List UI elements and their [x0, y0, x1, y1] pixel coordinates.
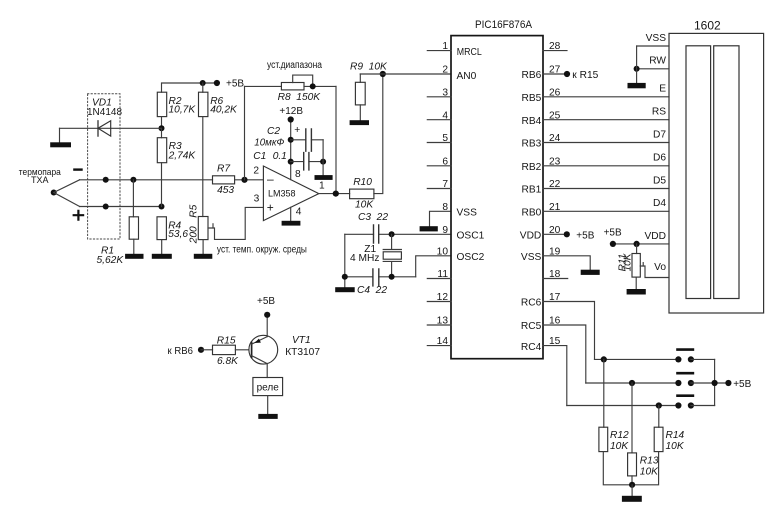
- wire collector to relay: [266, 364, 268, 378]
- button SB1: [595, 358, 679, 360]
- svg-text:4: 4: [442, 110, 448, 121]
- svg-text:+5B: +5B: [576, 231, 594, 242]
- LCD module 1602 body: [669, 33, 764, 313]
- svg-text:Vo: Vo: [654, 262, 666, 273]
- pin 4 stub: [427, 119, 451, 121]
- pin 15 RC4 wire to button 3: [543, 346, 567, 406]
- svg-text:VT1: VT1: [292, 335, 311, 346]
- wire op-amp output: [319, 193, 350, 195]
- ground for R9: [350, 120, 369, 125]
- button SB2: [586, 382, 679, 384]
- svg-text:RB5: RB5: [521, 93, 541, 104]
- pin 16 RC5 wire to button 2: [543, 325, 586, 383]
- svg-text:RB2: RB2: [521, 162, 541, 173]
- svg-text:C2: C2: [267, 126, 280, 137]
- resistor R2: [157, 92, 166, 116]
- svg-text:24: 24: [549, 133, 561, 144]
- wire R8 right down to output node: [335, 86, 337, 193]
- resistor R9: [359, 74, 361, 82]
- svg-text:10: 10: [437, 246, 449, 257]
- node к RB6 terminal: [198, 347, 204, 353]
- svg-text:OSC2: OSC2: [457, 252, 485, 263]
- wire minus row to R7: [80, 179, 213, 181]
- svg-text:RS: RS: [652, 107, 666, 118]
- svg-text:ТХА: ТХА: [31, 175, 49, 185]
- svg-text:+5B: +5B: [733, 379, 751, 390]
- pin 6 stub: [427, 165, 451, 167]
- wire pin 8 / +12B rail: [290, 120, 292, 180]
- svg-text:C4 22: C4 22: [357, 285, 387, 296]
- svg-text:MRCL: MRCL: [457, 47, 482, 58]
- LCD pin VSS wire: [637, 45, 669, 47]
- svg-text:+5B: +5B: [604, 227, 622, 238]
- button SB3: [567, 405, 679, 407]
- LCD screen column 1: [686, 46, 711, 299]
- pin 11 stub: [427, 278, 451, 280]
- node OSC1/crystal junction: [389, 231, 395, 237]
- node left oscillator junction: [342, 274, 348, 280]
- svg-text:RC5: RC5: [521, 321, 542, 332]
- svg-text:6.8K: 6.8K: [217, 356, 239, 367]
- svg-text:КТ3107: КТ3107: [285, 347, 320, 358]
- ground for oscillator: [335, 287, 355, 292]
- pin 3 stub: [427, 96, 451, 98]
- svg-text:реле: реле: [257, 382, 280, 393]
- svg-text:15: 15: [549, 336, 561, 347]
- potentiometer R11 (contrast): [636, 244, 638, 254]
- svg-text:22: 22: [549, 179, 561, 190]
- svg-text:OSC1: OSC1: [457, 231, 485, 242]
- pin 24 RB3 wire to LCD D7: [543, 142, 669, 144]
- resistor R15: [201, 349, 213, 351]
- svg-text:5: 5: [442, 133, 448, 144]
- crystal Z1 4MHz: [383, 234, 401, 249]
- svg-text:27: 27: [549, 65, 561, 76]
- IC U2 PIC16F876A body: [451, 36, 543, 359]
- svg-text:10K: 10K: [640, 467, 659, 478]
- svg-text:26: 26: [549, 87, 561, 98]
- svg-text:53,6: 53,6: [168, 229, 188, 240]
- ground for R4: [152, 254, 172, 259]
- svg-text:8: 8: [442, 202, 448, 213]
- svg-text:R10: R10: [353, 177, 372, 188]
- pin 20 VDD wire to +5B: [543, 233, 567, 235]
- svg-text:R12: R12: [610, 430, 629, 441]
- svg-text:7: 7: [442, 179, 448, 190]
- svg-text:R7: R7: [217, 163, 230, 174]
- svg-text:R14: R14: [666, 430, 685, 441]
- svg-text:0.1: 0.1: [273, 151, 287, 162]
- ground for R11: [627, 289, 646, 295]
- wire left leg of oscillator: [344, 234, 346, 287]
- svg-text:10K: 10K: [355, 200, 374, 211]
- pin 17 RC6 wire to button 1: [543, 302, 595, 360]
- svg-text:40,2K: 40,2K: [210, 105, 238, 116]
- svg-text:E: E: [659, 84, 666, 95]
- pin 5 stub: [427, 142, 451, 144]
- LCD pin RW wire: [637, 68, 669, 70]
- ground for relay: [258, 414, 277, 419]
- pin 7 stub: [427, 188, 451, 190]
- svg-text:1: 1: [319, 180, 325, 191]
- resistor R5 (trimmer): [198, 217, 208, 240]
- svg-text:к RB6: к RB6: [168, 346, 194, 357]
- pin 13 stub: [427, 324, 451, 326]
- ground for op-amp pin 4: [282, 221, 301, 226]
- wire thermocouple legs: [54, 180, 80, 207]
- resistor R14: [658, 406, 660, 428]
- potentiometer R8 (range adjust): [245, 85, 282, 87]
- pin 23 RB2 wire to LCD D6: [543, 165, 669, 167]
- svg-text:RB6: RB6: [521, 70, 541, 81]
- node AN0 junction: [380, 71, 386, 77]
- node +5B terminal VT1: [264, 312, 270, 318]
- wire R10 to AN0 line: [374, 74, 383, 194]
- wire button bus to +5B: [714, 359, 716, 405]
- ground for R5: [194, 254, 213, 259]
- node +5B rail top-left: [162, 83, 217, 92]
- wire plus row: [80, 206, 162, 208]
- ground for VD1: [59, 128, 61, 142]
- svg-text:19: 19: [549, 246, 561, 257]
- capacitor C2 (electrolytic): [288, 137, 294, 143]
- resistor R12: [603, 359, 605, 427]
- ground for LCD VSS/RW: [628, 83, 646, 88]
- svg-text:12: 12: [437, 292, 449, 303]
- svg-text:уст.диапазона: уст.диапазона: [267, 60, 322, 71]
- svg-text:453: 453: [217, 185, 234, 196]
- ground for pin 8: [420, 226, 438, 231]
- capacitor C4: [345, 276, 416, 278]
- svg-text:PIC16F876A: PIC16F876A: [475, 19, 533, 31]
- svg-text:10,7K: 10,7K: [169, 105, 197, 116]
- svg-text:R13: R13: [640, 456, 659, 467]
- resistor R3: [161, 128, 163, 137]
- svg-text:2: 2: [442, 65, 448, 76]
- wire AN0 (pin 2): [360, 73, 451, 75]
- pin 18 stub: [543, 278, 568, 280]
- svg-text:17: 17: [549, 292, 561, 303]
- svg-text:2,74K: 2,74K: [168, 150, 197, 161]
- pin 28 stub: [543, 50, 567, 52]
- svg-text:D4: D4: [653, 198, 666, 209]
- svg-text:10K: 10K: [610, 441, 629, 452]
- pin 26 RB5 wire to LCD E: [543, 96, 669, 98]
- pin 12 stub: [427, 301, 451, 303]
- svg-text:28: 28: [549, 41, 561, 52]
- svg-text:VSS: VSS: [646, 33, 667, 44]
- svg-text:–: –: [267, 172, 274, 186]
- svg-text:VDD: VDD: [520, 231, 542, 242]
- svg-text:RB4: RB4: [521, 116, 541, 127]
- wire R7 to op-amp pin 2: [235, 179, 264, 181]
- node R3/R4 tap on plus wire: [159, 204, 165, 210]
- wire R5 wiper to op-amp pin 3: [208, 207, 263, 239]
- node on minus wire (junction in box): [103, 177, 109, 183]
- svg-text:8: 8: [295, 169, 301, 180]
- pin 1 stub MRCL: [427, 50, 451, 52]
- svg-text:+12В: +12В: [279, 106, 303, 117]
- svg-text:20: 20: [549, 225, 561, 236]
- svg-text:VSS: VSS: [521, 252, 542, 263]
- svg-text:10K: 10K: [666, 441, 685, 452]
- svg-text:9: 9: [442, 225, 448, 236]
- svg-text:10мкФ: 10мкФ: [254, 138, 284, 149]
- ground for C1/C2: [315, 175, 333, 180]
- pin 14 stub: [427, 345, 451, 347]
- svg-text:25: 25: [549, 110, 561, 121]
- svg-text:C1: C1: [253, 151, 266, 162]
- svg-text:к R15: к R15: [572, 70, 598, 81]
- svg-text:10K: 10K: [623, 252, 634, 271]
- node +5B terminal buttons: [725, 380, 731, 386]
- node on plus wire (junction in box): [103, 204, 109, 210]
- svg-text:3: 3: [254, 193, 260, 204]
- svg-text:RB3: RB3: [521, 139, 541, 150]
- svg-text:D5: D5: [653, 175, 666, 186]
- svg-text:RW: RW: [649, 56, 666, 67]
- svg-text:AN0: AN0: [457, 71, 477, 82]
- wire relay to ground: [267, 396, 269, 414]
- wire OSC2 (pin 10): [416, 256, 451, 277]
- relay box: [253, 378, 283, 396]
- svg-text:уст. темп. окруж. среды: уст. темп. окруж. среды: [217, 244, 307, 255]
- svg-text:4 MHz: 4 MHz: [350, 253, 379, 264]
- svg-text:5,62K: 5,62K: [97, 255, 125, 266]
- svg-text:+5В: +5В: [257, 296, 275, 307]
- svg-text:R8 150K: R8 150K: [278, 92, 322, 103]
- minus terminal mark: [74, 168, 81, 170]
- capacitor C1: [288, 159, 294, 165]
- node +12B terminal: [288, 116, 294, 122]
- svg-text:18: 18: [549, 269, 561, 280]
- svg-text:200: 200: [188, 226, 199, 244]
- svg-text:R9 10K: R9 10K: [350, 61, 388, 72]
- node R2/R3/VD1 junction: [159, 125, 165, 131]
- node crystal/C4 junction: [389, 274, 395, 280]
- svg-text:VDD: VDD: [644, 231, 666, 242]
- op-amp U1 LM358: [263, 166, 318, 221]
- svg-text:RB0: RB0: [521, 208, 541, 219]
- node feedback/pin2 junction: [241, 177, 247, 183]
- pin 27 RB6 wire to R15: [543, 73, 567, 75]
- svg-text:LM358: LM358: [268, 189, 296, 199]
- wire R2 bottom to node: [161, 117, 163, 129]
- LCD screen column 2: [714, 46, 739, 299]
- wire VSS pin 8 to ground: [430, 211, 452, 226]
- svg-text:+: +: [294, 125, 300, 136]
- resistor R13: [631, 383, 633, 453]
- pin 19 VSS wire to ground: [543, 256, 590, 270]
- svg-text:R5: R5: [188, 204, 199, 217]
- resistor R4: [157, 217, 166, 240]
- node R1 tap on minus wire: [130, 177, 136, 183]
- svg-text:VSS: VSS: [457, 208, 478, 219]
- ground for buttons resistors: [622, 496, 642, 502]
- LCD pin VDD wire: [613, 243, 669, 245]
- wire R11 wiper to LCD Vo: [640, 266, 669, 278]
- node thermocouple apex: [51, 190, 57, 196]
- pin 22 RB1 wire to LCD D5: [543, 188, 669, 190]
- svg-text:11: 11: [437, 269, 448, 280]
- svg-text:1: 1: [442, 41, 448, 52]
- resistor R1: [132, 180, 134, 217]
- svg-text:2: 2: [253, 166, 259, 177]
- svg-text:R15: R15: [217, 335, 236, 346]
- svg-text:6: 6: [442, 156, 448, 167]
- resistor R6: [202, 83, 204, 92]
- pin 21 RB0 wire to LCD D4: [543, 210, 669, 212]
- svg-text:RC4: RC4: [521, 342, 542, 353]
- svg-text:D6: D6: [653, 153, 666, 164]
- node R12/R13/R14 common: [629, 482, 635, 488]
- transistor Q1 VT1 KT3107: [249, 335, 278, 364]
- svg-text:14: 14: [437, 336, 449, 347]
- svg-text:C3 22: C3 22: [358, 212, 388, 223]
- node C1/C2 right junction: [320, 159, 326, 165]
- svg-text:13: 13: [437, 316, 449, 327]
- svg-text:D7: D7: [653, 129, 666, 140]
- ground for R1: [125, 254, 143, 259]
- wire VSS/RW to ground: [636, 46, 638, 83]
- svg-text:1N4148: 1N4148: [87, 107, 122, 118]
- svg-text:23: 23: [549, 156, 561, 167]
- ground for pin 19: [581, 270, 600, 275]
- svg-text:1602: 1602: [694, 19, 721, 33]
- dotted box around VD1 and thermocouple junction: [88, 94, 120, 239]
- svg-text:+5B: +5B: [226, 79, 244, 90]
- diode VD1: [60, 127, 162, 129]
- svg-text:+: +: [267, 200, 274, 214]
- svg-text:RB1: RB1: [521, 185, 541, 196]
- svg-text:RC6: RC6: [521, 298, 542, 309]
- node output junction: [333, 191, 339, 197]
- svg-text:16: 16: [549, 316, 561, 327]
- wire emitter to +5B: [266, 315, 268, 337]
- plus terminal mark: [74, 211, 83, 220]
- wire op-amp pin 4 to ground: [290, 207, 292, 221]
- wire feedback R8 left to pin 2 node: [244, 86, 246, 179]
- capacitor C3: [345, 233, 451, 235]
- svg-text:21: 21: [549, 202, 561, 213]
- resistor R10: [350, 189, 374, 199]
- svg-text:3: 3: [442, 87, 448, 98]
- pin 25 RB4 wire to LCD RS: [543, 119, 669, 121]
- resistor R7: [213, 176, 235, 184]
- svg-text:4: 4: [296, 206, 302, 217]
- wire R15 to base: [235, 349, 251, 351]
